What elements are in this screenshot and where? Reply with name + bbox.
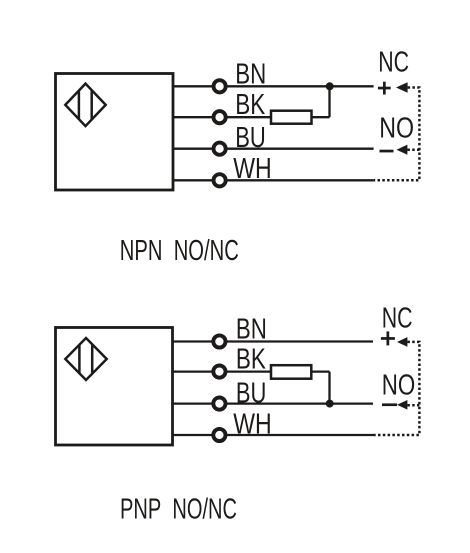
wire BK (bottom, sensor to resistor) <box>172 370 272 372</box>
arrowhead on NO output (bottom) <box>397 400 407 410</box>
dotted return path (top): arrow tails, vertical bus, WH run <box>374 88 420 181</box>
wire BN (bottom, sensor to terminal and to + output) <box>172 340 373 342</box>
arrowhead on NC output (bottom) <box>397 337 407 347</box>
dotted return path (bottom): arrow tails, vertical bus, WH run <box>374 342 419 435</box>
wire BN (top, sensor to terminal and to + output) <box>172 85 374 87</box>
svg-text:NPN NO/NC: NPN NO/NC <box>120 235 239 267</box>
resistor R load (bottom, on BK line) <box>271 365 311 379</box>
resistor R load (top, on BK line) <box>271 111 312 124</box>
wire vertical riser BK to BN (top) <box>328 85 330 117</box>
svg-text:BU: BU <box>236 377 267 409</box>
wire BU (top, sensor to - output) <box>172 148 374 150</box>
wire resistor to vertical riser (top) <box>312 116 330 118</box>
terminal WH (top) <box>214 174 226 186</box>
junction dot on BU line (bottom) <box>326 400 334 408</box>
svg-text:WH: WH <box>233 153 272 185</box>
svg-text:NO: NO <box>382 370 416 402</box>
label NO (top) <box>379 113 414 145</box>
label NC (top) <box>378 46 409 78</box>
terminal BK (top) <box>214 111 226 123</box>
sensor U1 optical symbol (diamond with lens) <box>65 84 105 127</box>
label BU (bottom) <box>236 377 267 409</box>
output plus symbol (bottom NC) <box>381 331 395 345</box>
terminal BU (top) <box>214 143 226 155</box>
wire BU (bottom, sensor to - output) <box>172 402 373 404</box>
output minus symbol (bottom NO) <box>382 403 397 406</box>
svg-text:NC: NC <box>382 303 413 335</box>
svg-text:BN: BN <box>235 58 266 90</box>
output minus symbol (top NO) <box>380 150 394 153</box>
label BN (bottom) <box>236 314 267 346</box>
arrowhead on NO output (top) <box>397 145 408 155</box>
caption NPN NO/NC <box>120 235 239 267</box>
terminal BK (bottom) <box>213 366 225 378</box>
svg-text:PNP NO/NC: PNP NO/NC <box>120 494 237 526</box>
terminal BN (top) <box>214 80 226 92</box>
wire WH (top) <box>172 179 374 181</box>
caption PNP NO/NC <box>120 494 237 526</box>
wire resistor to vertical dropper (bottom) <box>311 370 329 372</box>
svg-text:BN: BN <box>236 314 267 346</box>
label BN (top) <box>235 58 266 90</box>
svg-text:BK: BK <box>236 344 266 376</box>
terminal WH (bottom) <box>213 429 225 441</box>
terminal BU (bottom) <box>213 398 225 410</box>
svg-text:NO: NO <box>379 113 414 145</box>
svg-text:NC: NC <box>378 46 409 78</box>
svg-text:WH: WH <box>233 409 272 441</box>
wire WH (bottom) <box>172 434 374 436</box>
sensor U1 body (NPN diagram) <box>56 74 174 191</box>
label BK (bottom) <box>236 344 266 376</box>
label WH (bottom) <box>233 409 272 441</box>
sensor U2 optical symbol (diamond with lens) <box>65 338 106 380</box>
terminal BN (bottom) <box>213 335 225 347</box>
wire vertical dropper BK to BU (bottom) <box>328 372 330 405</box>
arrowhead on NC output (top) <box>396 82 408 93</box>
svg-text:BK: BK <box>235 89 265 121</box>
label BU (top) <box>235 122 265 154</box>
label NO (bottom) <box>382 370 416 402</box>
wire BK (top, sensor to resistor) <box>172 116 272 118</box>
junction dot on BN line (top) <box>326 82 334 90</box>
sensor U2 body (PNP diagram) <box>56 328 173 446</box>
svg-text:BU: BU <box>235 122 265 154</box>
output plus symbol (top NC) <box>378 82 391 95</box>
label WH (top) <box>233 153 272 185</box>
label BK (top) <box>235 89 265 121</box>
label NC (bottom) <box>382 303 413 335</box>
